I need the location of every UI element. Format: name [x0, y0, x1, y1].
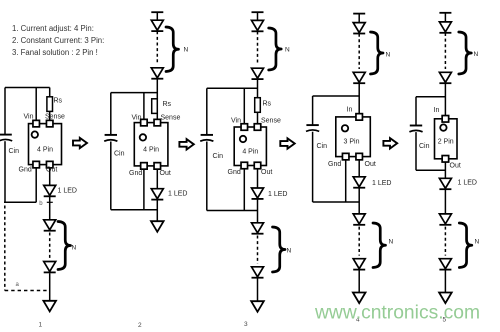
svg-text:N: N	[475, 239, 480, 246]
wire	[35, 168, 37, 203]
pin Out (circuit 4)	[356, 153, 363, 160]
brace N top (circuit 5)	[459, 32, 472, 74]
svg-text:Cin: Cin	[213, 153, 224, 160]
svg-text:Rs: Rs	[163, 101, 172, 108]
wire	[5, 290, 49, 292]
wire	[49, 88, 51, 97]
wire	[358, 188, 360, 214]
LED D3 (circuit 2)	[151, 189, 163, 200]
wire	[111, 92, 158, 94]
pin Sense (circuit 2)	[154, 119, 161, 126]
svg-text:Sense: Sense	[261, 118, 281, 125]
diode D1 top (circuit 2)	[151, 20, 163, 31]
wire	[49, 197, 51, 220]
wire	[111, 209, 158, 211]
pin Out (circuit 1)	[46, 161, 53, 168]
diode D2 top (circuit 4)	[353, 72, 365, 83]
wire	[35, 88, 37, 122]
diode D1 top (circuit 3)	[252, 20, 264, 31]
wire	[415, 97, 417, 126]
pin Out (circuit 5)	[442, 156, 449, 163]
svg-text:Cin: Cin	[114, 150, 125, 157]
svg-text:In: In	[347, 106, 353, 113]
pin Sense (circuit 1)	[46, 120, 53, 127]
cathode return arrow (circuit 2)	[151, 221, 164, 232]
svg-text:N: N	[285, 47, 290, 54]
LED D3 (circuit 4)	[353, 177, 365, 188]
wire	[358, 160, 360, 177]
wire	[416, 169, 445, 171]
wire	[243, 169, 245, 211]
wire	[444, 162, 446, 178]
cathode return arrow (circuit 1)	[43, 301, 56, 312]
wire	[444, 13, 446, 22]
wire	[345, 160, 347, 202]
wire	[243, 88, 245, 124]
wire	[156, 31, 158, 65]
svg-text:Cin: Cin	[9, 148, 20, 155]
brace N bottom (circuit 4)	[373, 223, 386, 268]
wire	[358, 270, 360, 292]
wire	[207, 87, 258, 89]
svg-text:Rs: Rs	[54, 98, 63, 105]
diode D1 top (circuit 4)	[353, 23, 365, 34]
block arrow 2	[179, 139, 193, 149]
wire	[49, 273, 51, 301]
pin Gnd (circuit 3)	[241, 162, 248, 169]
svg-text:Gnd: Gnd	[228, 169, 241, 176]
diode D2 top (circuit 2)	[151, 68, 163, 79]
pin Gnd (circuit 1)	[33, 161, 40, 168]
svg-text:N: N	[386, 52, 391, 59]
svg-text:1 LED: 1 LED	[268, 191, 287, 198]
wire	[4, 201, 36, 203]
pin Vin (circuit 3)	[241, 124, 248, 131]
wire	[47, 201, 53, 203]
op-amp U3 4-Pin regulator	[234, 127, 266, 166]
LED D3 (circuit 1)	[44, 262, 56, 273]
op-amp U1 4-Pin regulator	[29, 124, 62, 165]
svg-text:2: 2	[138, 322, 142, 329]
LED D4 (circuit 5)	[439, 214, 451, 225]
capacitor Cin (circuit 1)	[0, 135, 12, 141]
capacitor Cin (circuit 5)	[409, 126, 422, 132]
wire	[358, 34, 360, 69]
op-amp U4 3-Pin regulator	[336, 117, 371, 157]
capacitor Cin (circuit 3)	[200, 135, 213, 141]
capacitor Cin (circuit 2)	[104, 135, 117, 141]
svg-text:Out: Out	[450, 162, 461, 169]
LED D5 (circuit 4)	[353, 259, 365, 270]
diode D1 top (circuit 5)	[439, 22, 451, 33]
brace N (circuit 1)	[58, 222, 71, 270]
svg-text:3: 3	[244, 321, 248, 328]
pin In (circuit 5)	[442, 116, 449, 123]
supply tick (circuit 3)	[252, 11, 264, 13]
svg-text:Cin: Cin	[419, 143, 430, 150]
wire	[49, 111, 51, 121]
LED D1 (circuit 1)	[44, 185, 56, 196]
wire	[257, 169, 259, 188]
LED D4 (circuit 4)	[353, 214, 365, 225]
svg-text:Sense: Sense	[161, 115, 181, 122]
supply tick (circuit 5)	[439, 12, 451, 14]
pin Sense (circuit 3)	[254, 124, 261, 131]
wire	[257, 199, 259, 223]
pin Out (circuit 3)	[254, 162, 261, 169]
svg-text:Gnd: Gnd	[19, 166, 32, 173]
pin Gnd (circuit 2)	[141, 163, 148, 170]
wire	[143, 93, 145, 120]
pin Gnd (circuit 4)	[342, 153, 349, 160]
pin Vin (circuit 2)	[141, 119, 148, 126]
svg-text:Out: Out	[46, 166, 57, 173]
wire	[257, 236, 259, 264]
LED D5 (circuit 5)	[439, 259, 451, 270]
svg-text:4 Pin: 4 Pin	[37, 147, 53, 154]
svg-text:2 Pin: 2 Pin	[438, 139, 454, 146]
pin Vin (circuit 1)	[33, 120, 40, 127]
svg-text:2. Constant Current: 3 Pin:: 2. Constant Current: 3 Pin:	[12, 36, 104, 45]
wire	[444, 270, 446, 292]
diode D2 top (circuit 5)	[439, 72, 451, 83]
svg-text:1 LED: 1 LED	[168, 190, 187, 197]
svg-text:1. Current adjust: 4 Pin:: 1. Current adjust: 4 Pin:	[12, 24, 94, 33]
svg-text:3 Pin: 3 Pin	[344, 139, 360, 146]
wire	[4, 141, 6, 202]
pin-1 marker (circuit 5)	[440, 124, 446, 130]
wire	[257, 112, 259, 124]
pin In (circuit 4)	[356, 114, 363, 121]
pin-1 marker (circuit 4)	[342, 125, 348, 131]
svg-text:Cin: Cin	[317, 143, 328, 150]
svg-text:1 LED: 1 LED	[58, 188, 77, 195]
svg-text:Rs: Rs	[263, 101, 272, 108]
wire	[257, 279, 259, 302]
svg-text:In: In	[434, 107, 440, 114]
cathode return arrow (circuit 5)	[439, 293, 452, 304]
resistor Rs (circuit 1)	[47, 97, 53, 112]
wire	[358, 83, 360, 113]
svg-text:Sense: Sense	[45, 114, 65, 121]
wire	[206, 142, 208, 211]
cathode return arrow (circuit 4)	[353, 293, 366, 304]
supply tick (circuit 2)	[151, 11, 163, 13]
svg-text:Gnd: Gnd	[328, 161, 341, 168]
svg-text:1: 1	[39, 322, 43, 329]
svg-text:N: N	[389, 239, 394, 246]
diode D2 top (circuit 3)	[252, 68, 264, 79]
wire	[49, 168, 51, 186]
resistor Rs (circuit 3)	[255, 98, 261, 113]
svg-text:N: N	[287, 248, 292, 255]
wire	[4, 206, 6, 291]
svg-text:3. Fanal solution : 2 Pin !: 3. Fanal solution : 2 Pin !	[12, 48, 98, 57]
svg-text:1 LED: 1 LED	[458, 179, 477, 186]
wire	[5, 87, 50, 89]
wire	[156, 200, 158, 221]
svg-text:N: N	[184, 47, 189, 54]
svg-text:www.cntronics.com: www.cntronics.com	[314, 303, 480, 324]
wire	[444, 227, 446, 256]
wire	[143, 169, 145, 210]
wire	[156, 169, 158, 189]
svg-text:Gnd: Gnd	[129, 170, 142, 177]
block arrow 1	[73, 138, 87, 148]
brace N top (circuit 3)	[269, 28, 282, 70]
wire	[313, 95, 360, 97]
wire	[312, 132, 314, 202]
block arrow 3	[280, 138, 294, 148]
svg-text:1 LED: 1 LED	[372, 180, 391, 187]
pin-1 marker (circuit 2)	[140, 134, 146, 140]
brace N bottom (circuit 5)	[459, 223, 472, 268]
wire	[415, 132, 417, 170]
svg-text:4 Pin: 4 Pin	[242, 149, 258, 156]
supply tick (circuit 4)	[353, 13, 365, 15]
brace N top (circuit 4)	[371, 32, 384, 74]
brace N top (circuit 2)	[166, 27, 179, 72]
resistor Rs (circuit 2)	[152, 99, 158, 114]
wire	[444, 83, 446, 115]
wire	[206, 88, 208, 134]
wire	[257, 12, 259, 20]
wire	[313, 201, 360, 203]
wire	[358, 227, 360, 256]
wire	[444, 190, 446, 214]
wire	[207, 210, 258, 212]
wire	[358, 14, 360, 23]
LED D2 (circuit 1)	[44, 220, 56, 231]
LED D5 (circuit 3)	[252, 267, 264, 278]
pin Out (circuit 2)	[154, 163, 161, 170]
op-amp U2 4-Pin regulator	[134, 123, 168, 166]
svg-text:N: N	[474, 51, 479, 58]
svg-text:Out: Out	[160, 170, 171, 177]
wire	[156, 113, 158, 120]
svg-text:N: N	[72, 245, 77, 252]
wire	[156, 12, 158, 20]
op-amp U5 2-Pin regulator	[435, 119, 458, 159]
cathode return arrow (circuit 3)	[251, 301, 264, 312]
svg-text:Out: Out	[261, 169, 272, 176]
brace N bottom (circuit 3)	[273, 227, 286, 272]
LED D3 (circuit 3)	[252, 188, 264, 199]
wire	[444, 33, 446, 69]
wire	[257, 32, 259, 66]
pin-1 marker (circuit 3)	[240, 136, 246, 142]
LED D3 (circuit 5)	[439, 178, 451, 189]
LED D4 (circuit 3)	[252, 223, 264, 234]
capacitor Cin (circuit 4)	[306, 125, 319, 131]
svg-text:Vin: Vin	[231, 118, 241, 125]
wire	[4, 88, 6, 135]
wire	[416, 96, 445, 98]
svg-text:Vin: Vin	[24, 114, 34, 121]
svg-text:Out: Out	[365, 161, 376, 168]
wire	[257, 79, 259, 97]
wire	[312, 96, 314, 125]
svg-text:4 Pin: 4 Pin	[143, 147, 159, 154]
wire	[49, 233, 51, 260]
wire	[110, 93, 112, 135]
block arrow 4	[383, 138, 397, 148]
wire	[110, 142, 112, 210]
pin-1 marker (circuit 1)	[32, 131, 38, 137]
wire	[156, 79, 158, 99]
